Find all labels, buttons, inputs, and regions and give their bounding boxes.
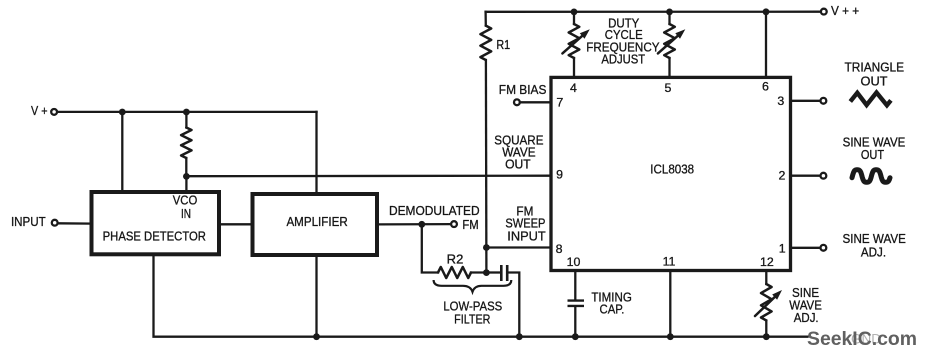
svg-text:DEMODULATED: DEMODULATED xyxy=(389,204,480,218)
svg-text:INPUT: INPUT xyxy=(11,215,46,229)
wire demodulated junction down to R2 xyxy=(422,224,438,272)
brace low-pass filter xyxy=(434,280,512,292)
node junction timing cap/ground xyxy=(572,333,579,340)
wire V++ rail xyxy=(486,11,821,13)
wire V+ rail xyxy=(58,111,317,113)
node junction R1/pin8 xyxy=(483,244,490,251)
svg-text:OUT: OUT xyxy=(505,158,531,172)
svg-text:V + +: V + + xyxy=(831,4,859,18)
capacitor low-pass filter xyxy=(486,271,499,273)
node junction capacitor/ground rail xyxy=(516,333,523,340)
potentiometer frequency adjust (pin 5) xyxy=(664,24,675,58)
svg-text:ADJ.: ADJ. xyxy=(794,311,819,325)
node junction rail/pot1 xyxy=(571,9,578,16)
wire pin 2 sine out xyxy=(791,175,821,177)
svg-text:2: 2 xyxy=(779,168,786,182)
svg-text:10: 10 xyxy=(567,255,581,269)
potentiometer duty cycle adjust (pin 4) xyxy=(569,24,580,58)
svg-text:INPUT: INPUT xyxy=(507,229,546,243)
wire input to phase detector xyxy=(58,222,92,225)
svg-text:9: 9 xyxy=(556,167,563,181)
svg-text:FILTER: FILTER xyxy=(454,313,490,327)
node junction rail/pot2 xyxy=(666,9,673,16)
wire pin 3 triangle out xyxy=(791,100,821,102)
capacitor timing (pin 10) xyxy=(574,271,576,300)
svg-text:6: 6 xyxy=(762,79,769,93)
wire phase detector bottom to ground rail xyxy=(154,254,317,336)
wire V++ to pin 6 xyxy=(765,12,767,78)
IC U1 ICL8038 xyxy=(551,77,791,270)
node junction rail/timing-resistor xyxy=(183,109,190,116)
svg-text:8: 8 xyxy=(556,242,563,256)
node junction resistor/VCO-in/square-wave line xyxy=(183,173,190,180)
block phase detector xyxy=(92,192,220,254)
svg-text:FM BIAS: FM BIAS xyxy=(499,83,547,97)
svg-text:4: 4 xyxy=(570,81,577,95)
node junction pin11/ground xyxy=(667,333,674,340)
terminal V++ xyxy=(821,9,827,15)
wire R1 bottom to low-pass junction xyxy=(485,60,488,273)
svg-text:SeekIC.com: SeekIC.com xyxy=(807,328,917,350)
wire junction into VCO IN xyxy=(185,176,187,192)
symbol sine wave xyxy=(852,170,890,183)
wire junction to pin 8 xyxy=(486,246,551,248)
svg-text:1: 1 xyxy=(779,241,786,255)
svg-text:OUT: OUT xyxy=(861,148,885,162)
svg-text:3: 3 xyxy=(777,94,784,108)
svg-text:5: 5 xyxy=(665,81,672,95)
block amplifier xyxy=(253,194,378,255)
svg-text:FM: FM xyxy=(462,218,478,232)
ground rail (bottom) xyxy=(317,336,808,338)
wire square-wave feedback to pin 9 xyxy=(186,175,551,178)
svg-text:ADJ.: ADJ. xyxy=(861,246,886,260)
symbol triangle wave xyxy=(850,93,891,106)
node junction amplifier/ground rail xyxy=(313,333,320,340)
resistor VCO timing (vertical) xyxy=(181,128,191,159)
wire pin 1 sine wave adj xyxy=(791,247,821,249)
svg-text:CAP.: CAP. xyxy=(600,303,625,317)
wire amplifier bottom to ground rail xyxy=(315,255,317,337)
node junction rail/phase-detector xyxy=(119,109,126,116)
svg-text:R2: R2 xyxy=(447,253,464,267)
wire phase detector to amplifier xyxy=(219,223,253,225)
svg-text:ADJUST: ADJUST xyxy=(601,53,645,67)
svg-text:V +: V + xyxy=(31,104,48,118)
svg-text:SINE WAVE: SINE WAVE xyxy=(843,232,906,246)
node junction pot/ground xyxy=(763,333,770,340)
svg-text:IN: IN xyxy=(181,207,191,221)
node junction R2/C/R1 lead xyxy=(483,269,490,276)
wire rail to phase detector top xyxy=(121,112,123,192)
svg-text:ICL8038: ICL8038 xyxy=(650,162,694,176)
svg-text:12: 12 xyxy=(760,255,774,269)
wire pin 11 to ground xyxy=(669,271,671,337)
svg-text:11: 11 xyxy=(663,254,676,268)
svg-text:VCO: VCO xyxy=(173,194,198,208)
svg-text:R1: R1 xyxy=(496,38,510,52)
node junction demodulated output xyxy=(418,221,425,228)
svg-text:AMPLIFIER: AMPLIFIER xyxy=(286,215,347,229)
svg-text:7: 7 xyxy=(556,95,563,109)
svg-text:OUT: OUT xyxy=(861,75,888,89)
wire amplifier output to FM terminal xyxy=(377,223,451,226)
svg-text:TRIANGLE: TRIANGLE xyxy=(845,61,905,75)
node junction rail/pin6 xyxy=(763,8,770,15)
potentiometer sine wave adj (pin 12) xyxy=(765,271,767,285)
svg-text:PHASE DETECTOR: PHASE DETECTOR xyxy=(103,230,206,244)
wire rail down to amplifier top xyxy=(315,112,317,194)
